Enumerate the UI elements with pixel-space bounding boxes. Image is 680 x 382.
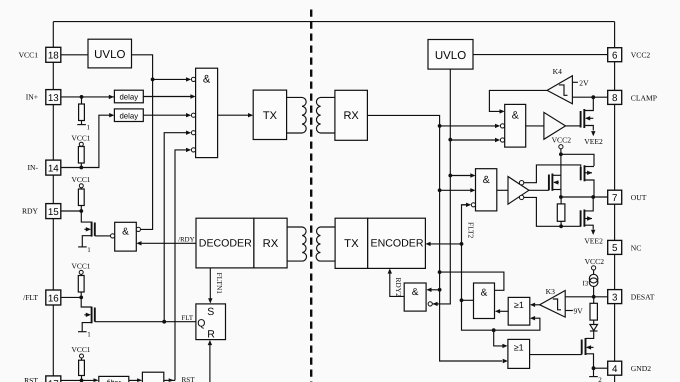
svg-text:DECODER: DECODER [199, 238, 252, 250]
AND gate G8 rdy driver [115, 222, 137, 251]
svg-text:NC: NC [631, 243, 642, 252]
svg-text:RX: RX [263, 238, 279, 250]
package outline top edge [53, 21, 614, 23]
pin 16 [46, 290, 61, 305]
svg-text:RX: RX [343, 110, 359, 122]
svg-text:VCC1: VCC1 [72, 262, 91, 271]
svg-text:VCC1: VCC1 [72, 175, 91, 184]
wire DECODER FLTN1 to latch S [209, 268, 211, 299]
resistor R-out [560, 197, 562, 204]
svg-text:UVLO: UVLO [94, 49, 125, 61]
svg-text:RDY: RDY [22, 207, 39, 216]
wire clamp node to pin8 [572, 96, 607, 98]
AND gate G7 rdy2 [404, 283, 426, 311]
svg-text:8: 8 [612, 93, 618, 104]
svg-text:S: S [207, 306, 214, 318]
wire FLT rail to G1 in4 [164, 133, 186, 322]
svg-text:TX: TX [263, 110, 278, 122]
driver A2 with complementary outputs [497, 189, 508, 191]
buffer A1 [526, 125, 544, 127]
node rail B to clamp AND [448, 138, 452, 142]
svg-text:VCC1: VCC1 [72, 345, 91, 354]
wire UVLO2 to pin6 [473, 54, 608, 56]
svg-text:2: 2 [598, 376, 602, 382]
wire UVLO1 output rail [132, 55, 153, 230]
pin 4 [608, 361, 622, 375]
RX block U6 [254, 218, 287, 268]
ground 1 [78, 246, 87, 248]
wire buffer to clamp MOSFET gate [566, 125, 581, 127]
svg-text:GND2: GND2 [631, 364, 651, 373]
svg-text:FLTN1: FLTN1 [215, 273, 224, 295]
RX block U3 [335, 90, 368, 140]
svg-text:&: & [483, 174, 490, 186]
wire FLT2 to ENCODER [430, 243, 461, 245]
svg-text:&: & [481, 288, 488, 299]
wire lower driver output to Q4 gate [524, 197, 581, 226]
svg-text:IN-: IN- [27, 163, 38, 172]
svg-text:delay: delay [119, 111, 138, 120]
svg-text:6: 6 [612, 51, 618, 62]
svg-text:RDY2: RDY2 [394, 278, 403, 298]
node rail B to out AND in1 [448, 174, 452, 178]
AND gate G1 [196, 68, 218, 157]
transformer T2 secondary [316, 227, 335, 261]
transistor Q4 lower output MOSFET [580, 210, 582, 226]
node supply branch [559, 152, 563, 156]
transformer T1 primary [287, 97, 307, 133]
svg-text:≥1: ≥1 [514, 300, 524, 310]
delay block D2 [114, 109, 143, 122]
wire K4 output to clamp AND in1 [489, 90, 547, 111]
svg-text:&: & [203, 74, 211, 86]
pin 13 [46, 90, 61, 105]
transistor Q7 FLT MOSFET [81, 297, 91, 307]
wire rail A to G5 in1 [438, 270, 442, 274]
svg-text:UVLO: UVLO [435, 50, 466, 62]
block U11 [142, 372, 163, 382]
diode D-desat [590, 325, 598, 331]
wire FLT2 rail to G3 in3 [462, 204, 467, 206]
transistor Q3 small left MOSFET [548, 175, 550, 191]
AND gate G5 fault [474, 283, 495, 319]
latch U9 SR [196, 304, 226, 340]
svg-text:7: 7 [612, 193, 617, 204]
svg-text:K3: K3 [546, 287, 555, 296]
wire rail A to G7 in1 [438, 288, 442, 292]
ENCODER block U8 [368, 218, 426, 268]
wire apex driver output to Q3 gate [529, 189, 549, 191]
svg-text:1: 1 [87, 124, 91, 132]
TX block U7 [335, 218, 368, 268]
ground 1 [78, 331, 87, 333]
K4 comparator [547, 76, 572, 104]
wire delay2 to AND G1 in3 [143, 114, 186, 116]
svg-text:16: 16 [48, 293, 59, 304]
svg-text:1: 1 [87, 331, 91, 339]
FLT2 rail [462, 205, 540, 330]
svg-text:5: 5 [612, 243, 618, 254]
K3 comparator [540, 291, 566, 318]
svg-text:CLAMP: CLAMP [631, 93, 657, 102]
node rail A to clamp AND [438, 124, 442, 128]
wire G1 out to TX1 [218, 114, 252, 116]
wire pin13 to delay1 [61, 96, 115, 98]
ground 2 [593, 368, 595, 376]
svg-text:/RDY: /RDY [178, 236, 194, 243]
wire OR2 out to Q5 gate [530, 354, 582, 356]
svg-text:VCC1: VCC1 [19, 50, 39, 59]
wire U11 to RST rail [164, 379, 175, 381]
svg-text:VCC1: VCC1 [72, 134, 91, 143]
wire K3 output to OR1 in1 [535, 304, 540, 306]
svg-text:RST: RST [24, 376, 38, 382]
node IN+ [80, 95, 84, 99]
node IN- [79, 166, 83, 170]
svg-text:K4: K4 [553, 67, 562, 76]
node FLT to G1 rail [162, 320, 166, 324]
svg-text:Q: Q [197, 318, 205, 330]
wire OR1 out to G5 in2 [500, 310, 508, 312]
svg-text:&: & [512, 110, 519, 122]
svg-text:4: 4 [612, 364, 618, 375]
svg-text:3: 3 [612, 292, 618, 303]
transistor Q2 upper output MOSFET [580, 167, 582, 180]
node rail A to out AND in2 [438, 188, 442, 192]
svg-text:VEE2: VEE2 [584, 137, 603, 146]
svg-text:2V: 2V [579, 78, 589, 87]
wire G5 out to FLT2 rail [462, 299, 474, 301]
resistor R-IN- [78, 147, 84, 164]
svg-text:VEE2: VEE2 [584, 237, 603, 246]
node FLT2 to OR2 [492, 328, 496, 332]
transistor Q1 clamp MOSFET [580, 111, 582, 128]
svg-text:VCC2: VCC2 [585, 257, 605, 266]
wire upper driver output to Q2 gate [524, 165, 581, 183]
svg-text:14: 14 [48, 163, 59, 174]
svg-text:15: 15 [48, 207, 59, 218]
ground 1 [77, 124, 86, 126]
UVLO U4 [428, 40, 473, 70]
wire RX1 output to rail A [367, 115, 502, 361]
wire GND2 node to pin4 [594, 367, 608, 369]
wire OUT node to pin7 [561, 196, 608, 198]
transistor Q6 RDY MOSFET [81, 211, 91, 222]
AND gate G3 output [476, 169, 497, 211]
svg-text:filter: filter [107, 378, 122, 382]
resistor R-desat [593, 297, 595, 304]
svg-text:VCC2: VCC2 [552, 136, 572, 145]
svg-text:FLT: FLT [182, 315, 194, 322]
wire rail B to G7 in2 [432, 302, 437, 306]
transistor Q5 DESAT discharge MOSFET [581, 340, 583, 355]
svg-text:&: & [122, 227, 129, 238]
wire UVLO1 to AND G1 in1 [153, 78, 187, 80]
pin 5 [608, 240, 622, 254]
wire DESAT node to pin3 [565, 296, 608, 298]
pin 17 [46, 376, 61, 382]
wire filter to U11 [129, 379, 138, 381]
wire pin16 to node [61, 296, 81, 298]
package outline left edge [52, 22, 54, 382]
package outline right edge [614, 22, 616, 382]
transformer T2 primary [287, 227, 306, 261]
OR gate G4 [508, 297, 530, 325]
pin 8 [608, 90, 622, 104]
svg-text:13: 13 [48, 93, 59, 104]
TX block U2 [253, 90, 286, 139]
9V reference [565, 310, 573, 312]
wire pin15 to node [61, 210, 82, 212]
2V reference [572, 81, 578, 83]
isolation barrier dashed line [310, 10, 312, 382]
svg-text:IN+: IN+ [26, 93, 38, 102]
svg-text:1: 1 [87, 246, 91, 254]
svg-text:9V: 9V [574, 307, 584, 316]
pin 3 [608, 290, 622, 304]
svg-text:delay: delay [119, 93, 138, 102]
filter block U10 [99, 376, 129, 382]
wire DECODER /RDY to G8 [141, 242, 196, 244]
pin 7 [608, 190, 622, 204]
svg-text:RST: RST [182, 376, 196, 382]
node UVLO1 branch [151, 78, 155, 82]
svg-text:FLT2: FLT2 [467, 222, 476, 238]
svg-text:/FLT: /FLT [23, 293, 38, 302]
svg-text:18: 18 [48, 51, 59, 62]
pin 18 [46, 47, 61, 62]
wire RDY2 to ENCODER [390, 272, 404, 297]
svg-text:OUT: OUT [631, 193, 647, 202]
delay block D1 [114, 90, 143, 103]
UVLO U1 [88, 39, 132, 68]
svg-text:DESAT: DESAT [631, 293, 655, 302]
resistor R-IN+ [81, 97, 83, 104]
svg-text:TX: TX [344, 238, 359, 250]
pin 14 [46, 160, 61, 175]
svg-text:I3: I3 [582, 280, 588, 288]
wire UVLO2 rail B [433, 69, 451, 304]
DECODER block U5 [196, 218, 254, 268]
svg-text:&: & [412, 287, 419, 298]
wire pin14 to delay2 [61, 115, 110, 167]
AND gate G2 clamp [505, 104, 526, 147]
transformer T1 secondary [316, 97, 334, 133]
wire RST to latch R [209, 345, 211, 382]
wire RST rail to G1 in5 [175, 150, 187, 381]
OR gate G6 [508, 339, 530, 368]
svg-text:≥1: ≥1 [514, 342, 524, 352]
svg-text:ENCODER: ENCODER [371, 238, 424, 250]
wire pin18 to UVLO1 [61, 54, 88, 56]
wire pin17 to filter [61, 379, 95, 381]
current source I3 [589, 274, 598, 283]
svg-text:R: R [207, 328, 215, 340]
svg-text:VCC2: VCC2 [631, 51, 651, 60]
pin 6 [608, 48, 622, 62]
wire delay1 to AND G1 in2 [143, 96, 191, 98]
pin 15 [46, 204, 61, 219]
